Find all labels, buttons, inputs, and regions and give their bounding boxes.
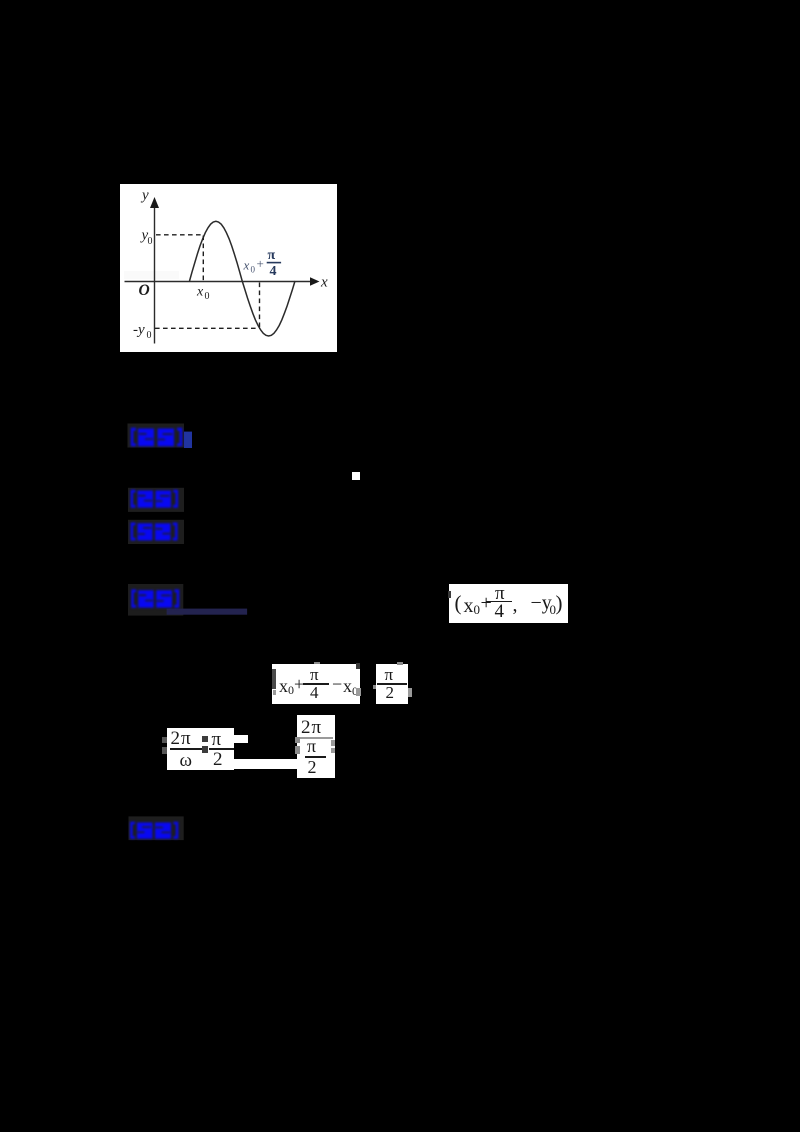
- dashed line x0 vertical: [202, 236, 204, 281]
- svg-text:x: x: [243, 258, 250, 273]
- section label [fenxi]: [128, 519, 188, 546]
- svg-text:-y: -y: [133, 322, 145, 338]
- F4 white tab: [232, 735, 248, 742]
- graph figure: sine curve plot white panel: [120, 184, 337, 352]
- dashed vertical at x0+pi/4: [259, 283, 261, 329]
- x-axis: [125, 281, 313, 283]
- y-axis arrowhead: [150, 197, 159, 208]
- section label [zhuanti]: [128, 487, 188, 513]
- svg-text:+: +: [257, 256, 264, 271]
- sine curve: [190, 221, 296, 336]
- dashed horizontal at -y0: [155, 327, 260, 329]
- svg-text:0: 0: [251, 265, 256, 275]
- svg-text:y: y: [140, 188, 149, 204]
- svg-text:π: π: [268, 248, 276, 263]
- formula box F4a: 2pi/omega = pi/2: [167, 728, 234, 770]
- svg-text:x: x: [196, 285, 204, 300]
- section label [kaodian]: [127, 423, 193, 449]
- svg-text:0: 0: [205, 291, 210, 302]
- formula box F4b: 2pi over (pi/2): [297, 715, 336, 778]
- svg-text:x: x: [320, 275, 328, 291]
- svg-text:0: 0: [147, 330, 152, 341]
- svg-text:0: 0: [148, 236, 153, 247]
- faint gray smear left of origin: [124, 271, 179, 279]
- section label [jieda] with underline: [128, 584, 250, 616]
- formula box F3: pi/2 with comma: [376, 664, 409, 704]
- formula box F1: (x0+pi/4, -y0): [449, 584, 568, 623]
- y-axis: [154, 206, 156, 344]
- section label [dianping]: [128, 816, 188, 841]
- dashed line y0 horizontal: [156, 234, 204, 236]
- white bullet square: [352, 472, 360, 480]
- F4 white strip: [232, 759, 297, 769]
- formula box F2: (x0+pi/4 - x0): [272, 664, 360, 704]
- svg-text:4: 4: [270, 264, 277, 279]
- panel background: [120, 184, 337, 352]
- svg-text:O: O: [139, 282, 150, 299]
- x-axis arrowhead: [310, 277, 320, 285]
